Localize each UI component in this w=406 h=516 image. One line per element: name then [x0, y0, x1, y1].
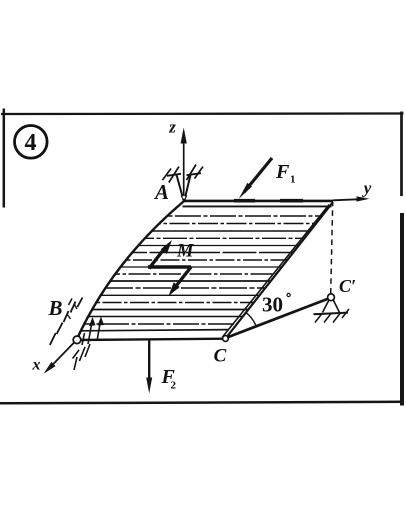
svg-text:30: 30 [262, 293, 283, 317]
moment M (couple symbol on plate) [148, 240, 191, 296]
svg-text:y: y [362, 179, 372, 198]
plate bottom edge B-C (double line) [77, 330, 229, 340]
node C' (pin) [328, 294, 335, 301]
plate right edge D-C (double line) [222, 202, 333, 339]
force F2 arrow [146, 340, 152, 394]
y axis [333, 196, 370, 201]
frame (decorative) [0, 109, 404, 406]
angle arc 30 degrees at C [246, 313, 256, 327]
support at B (ball with ground hatching) [50, 298, 101, 371]
node A (pin) [181, 196, 188, 203]
node C (pin) [223, 336, 229, 342]
svg-text:x: x [32, 357, 41, 374]
svg-text:B: B [47, 296, 62, 320]
node B (ball joint) [73, 336, 81, 344]
support at C' (pinned to ground with hatching) [314, 300, 350, 323]
svg-text:M: M [176, 242, 194, 262]
support at A (rod hanger with hatched ceiling) [163, 165, 204, 203]
svg-text:2: 2 [171, 380, 177, 392]
svg-text:C: C [214, 346, 227, 367]
figure number 4 (circled) [15, 126, 48, 159]
dashed line C' up to plate corner D [331, 203, 333, 294]
svg-text:F: F [275, 161, 290, 183]
plate top edge AD (double line) [183, 201, 334, 207]
svg-text:z: z [168, 118, 176, 137]
svg-text:1: 1 [290, 174, 296, 186]
force F1 arrow [239, 158, 272, 199]
brace rod C to C' [227, 299, 328, 338]
svg-text:4: 4 [25, 130, 37, 156]
svg-text:C′: C′ [339, 276, 356, 296]
x axis (extension of AB beyond B) [44, 340, 77, 374]
plate left edge A-B (bowed in scan) [77, 202, 184, 341]
z axis [181, 128, 187, 200]
svg-text:A: A [153, 180, 169, 204]
